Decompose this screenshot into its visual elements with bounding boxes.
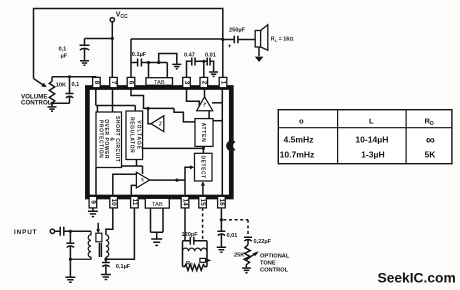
ground bbox=[101, 275, 111, 280]
svg-text:TAB: TAB bbox=[154, 80, 165, 86]
wire pin2 riser bbox=[203, 61, 205, 77]
svg-text:10.7mHz: 10.7mHz bbox=[280, 150, 315, 160]
wire TAB top bracket bbox=[149, 63, 168, 78]
wire secondary top to pin10 bbox=[106, 208, 113, 235]
wire secondary bottom to pin11 bbox=[106, 208, 134, 259]
node junction rail pin1 bbox=[221, 38, 224, 41]
capacitor 120pF tank bbox=[183, 237, 208, 245]
pin 7 bbox=[110, 77, 118, 87]
wire output rail y39 bbox=[131, 38, 234, 41]
node VCC terminal bbox=[110, 18, 114, 22]
IC U1 body outline bbox=[87, 88, 231, 198]
inductor L tank coil bbox=[183, 248, 207, 251]
svg-text:250µF: 250µF bbox=[229, 27, 246, 33]
node junction bbox=[147, 61, 150, 64]
svg-text:0,1: 0,1 bbox=[59, 47, 67, 53]
wire shunt to ground bbox=[69, 259, 71, 277]
svg-text:8: 8 bbox=[93, 81, 100, 85]
wire pin15 to DETECT bottom bbox=[202, 184, 204, 195]
ground input bbox=[65, 277, 75, 282]
wire wiper arrow diagonal bbox=[34, 79, 44, 86]
svg-text:TONE: TONE bbox=[260, 261, 276, 267]
wire pin15 dashed down bbox=[202, 208, 204, 241]
svg-text:Fs: Fs bbox=[158, 121, 162, 125]
wire pin16 down bbox=[220, 208, 222, 231]
wire op-amp base to ATTEN bbox=[208, 111, 210, 119]
ground bbox=[217, 247, 226, 252]
table header separator bbox=[278, 127, 452, 129]
pin 10 bbox=[110, 196, 118, 208]
wire bracket to ground bbox=[159, 54, 177, 64]
ground bbox=[172, 64, 181, 68]
svg-text:∞: ∞ bbox=[426, 133, 435, 147]
ground tone bbox=[242, 268, 251, 273]
wire top feedback rail from output to volume wiper bbox=[34, 9, 223, 79]
node junction bbox=[202, 147, 205, 150]
svg-text:0,22µF: 0,22µF bbox=[254, 239, 272, 245]
ground pin 9 bbox=[88, 208, 98, 217]
capacitor input shunt bbox=[66, 231, 74, 259]
wire regulator bottom jog to IF amp bbox=[122, 160, 143, 175]
pin 6 bbox=[127, 77, 135, 87]
svg-text:7: 7 bbox=[110, 81, 117, 85]
transformer T1 core bbox=[99, 243, 101, 257]
svg-text:ATTEN: ATTEN bbox=[200, 123, 206, 143]
svg-text:5K: 5K bbox=[425, 150, 437, 160]
wire pin14 down to quad tank bbox=[184, 208, 186, 241]
wire pot top to pin 8 bbox=[52, 77, 96, 78]
svg-text:SeekIC.com: SeekIC.com bbox=[378, 271, 456, 286]
svg-text:4.5mHz: 4.5mHz bbox=[283, 135, 313, 145]
wire IF output to detect bbox=[150, 167, 192, 194]
svg-text:PROTECTION: PROTECTION bbox=[98, 120, 104, 158]
wire pin7 into protection block bbox=[112, 88, 114, 112]
node arrowhead up bbox=[201, 181, 205, 185]
node junction VCC bypass bbox=[111, 37, 114, 40]
svg-text:0,01: 0,01 bbox=[227, 233, 238, 239]
svg-text:0.47: 0.47 bbox=[184, 53, 195, 59]
wire tab bottom lead bbox=[151, 208, 164, 239]
svg-text:16: 16 bbox=[218, 198, 225, 206]
svg-text:VOLTAGE: VOLTAGE bbox=[136, 120, 142, 150]
pin 3 bbox=[183, 77, 191, 87]
op-amp Fs (points left) bbox=[151, 116, 164, 132]
svg-text:0,1: 0,1 bbox=[72, 82, 80, 88]
node arrowhead into DETECT bbox=[190, 165, 194, 169]
svg-text:9: 9 bbox=[89, 200, 96, 204]
svg-text:Rd: Rd bbox=[186, 261, 193, 267]
svg-text:120pF: 120pF bbox=[182, 232, 199, 238]
wire pin10 to IF input bbox=[113, 174, 137, 195]
wire pin6 column bbox=[130, 39, 132, 78]
pin 8 bbox=[93, 77, 101, 87]
block SHORT CIRCUIT & OVER POWER PROTECTION bbox=[96, 112, 122, 168]
node junction bbox=[69, 258, 72, 261]
resistor Rd damping bbox=[183, 264, 208, 270]
wire pin8 to regulator rail bbox=[96, 88, 136, 111]
wire node staircase to ATTEN input bbox=[174, 108, 195, 122]
node junction pot bottom bbox=[50, 102, 53, 105]
node junction pot top cap bbox=[68, 75, 71, 78]
wire speaker ground stub bbox=[258, 47, 260, 56]
pin 2 bbox=[200, 77, 208, 87]
block VOLTAGE REGULATOR bbox=[126, 111, 143, 160]
pin 1 bbox=[219, 77, 227, 87]
capacitor 0.1uF secondary bbox=[102, 259, 110, 274]
table column separators bbox=[338, 110, 407, 164]
wire protection block to pin9 bbox=[95, 168, 97, 195]
node tuning arrow into slug bbox=[97, 223, 99, 230]
table tuning data border bbox=[278, 110, 452, 164]
node junction bbox=[175, 179, 178, 182]
capacitor 0.1uF pin6 decouple bbox=[131, 59, 149, 67]
IC right edge notch bbox=[226, 140, 237, 151]
svg-text:0,1µF: 0,1µF bbox=[116, 264, 131, 270]
op-amp output (points up) bbox=[197, 97, 213, 111]
ground bbox=[255, 57, 264, 62]
wire tank rails bbox=[183, 241, 208, 267]
transformer T1 secondary bbox=[106, 235, 109, 257]
speaker cone bbox=[261, 25, 268, 51]
svg-text:o: o bbox=[299, 117, 304, 126]
wire stub into protection block bbox=[96, 106, 98, 113]
node junction bbox=[220, 218, 223, 221]
capacitor 0.01 bbox=[204, 58, 214, 72]
svg-text:VCC: VCC bbox=[116, 11, 128, 20]
capacitor 250uF output bbox=[234, 36, 255, 44]
svg-text:0.01: 0.01 bbox=[205, 53, 216, 59]
svg-text:DETECT: DETECT bbox=[200, 155, 206, 178]
svg-text:3: 3 bbox=[183, 81, 190, 85]
svg-text:µF: µF bbox=[61, 54, 68, 60]
node junction bbox=[69, 230, 72, 233]
svg-text:0.1µF: 0.1µF bbox=[132, 52, 147, 58]
pin 9 bbox=[89, 196, 97, 208]
svg-text:10-14µH: 10-14µH bbox=[355, 135, 388, 145]
node wiper arrowhead bbox=[41, 83, 47, 88]
transformer T1 primary bbox=[70, 231, 91, 259]
wire atten right tap bbox=[213, 120, 222, 122]
svg-text:+: + bbox=[228, 43, 232, 50]
pin 14 bbox=[181, 196, 189, 208]
svg-text:INPUT: INPUT bbox=[14, 229, 37, 236]
pin 16 bbox=[218, 196, 226, 208]
block DETECT bbox=[195, 153, 213, 181]
svg-text:15: 15 bbox=[199, 198, 206, 206]
svg-text:L: L bbox=[369, 117, 374, 126]
node junction bbox=[104, 258, 107, 261]
wire pin6 staircase to Fs node bbox=[131, 88, 174, 108]
capacitor 0.1 across pot bbox=[66, 77, 74, 104]
ground tab bottom bbox=[151, 239, 162, 245]
wire pin3 staircase to output driver bbox=[187, 88, 200, 111]
svg-text:11: 11 bbox=[131, 199, 138, 206]
ground bbox=[48, 107, 57, 111]
IC tab bottom bbox=[145, 198, 169, 208]
pin 15 bbox=[199, 196, 207, 208]
wire node to Fs apex bbox=[148, 108, 151, 123]
svg-text:1: 1 bbox=[220, 81, 227, 85]
speaker RL driver bbox=[255, 31, 260, 48]
svg-text:A₅: A₅ bbox=[203, 102, 207, 107]
wire pot bottom bbox=[52, 102, 70, 104]
block ATTEN bbox=[195, 119, 213, 147]
wire to bypass cap bbox=[85, 39, 113, 45]
op-amp IF (points right) bbox=[136, 172, 149, 188]
wire pin1 column bbox=[222, 40, 224, 78]
node junction pin2 bbox=[202, 60, 205, 63]
potentiometer 25K tone bbox=[244, 245, 250, 268]
capacitor 0.01 deemphasis bbox=[217, 231, 225, 247]
svg-text:6: 6 bbox=[128, 81, 135, 85]
svg-text:1-3µH: 1-3µH bbox=[361, 150, 385, 160]
wire dashed to optional tone control bbox=[223, 220, 248, 237]
svg-text:10K: 10K bbox=[56, 83, 66, 89]
ground bbox=[209, 72, 218, 76]
svg-text:10: 10 bbox=[110, 198, 117, 206]
wire VCC feed down to pin 7 bbox=[111, 22, 113, 78]
node junction bbox=[157, 61, 160, 64]
IC tab top bbox=[146, 78, 173, 86]
svg-text:RL = 16Ω: RL = 16Ω bbox=[271, 37, 294, 43]
svg-text:TAB: TAB bbox=[152, 202, 163, 208]
wire pin1 internal feedback column bbox=[221, 88, 223, 195]
svg-text:CONTROL: CONTROL bbox=[260, 268, 289, 274]
wire feedback tap to op-amp bbox=[212, 102, 222, 104]
svg-text:2: 2 bbox=[200, 81, 207, 85]
svg-text:CONTROL: CONTROL bbox=[21, 99, 52, 106]
svg-text:25K: 25K bbox=[234, 252, 244, 258]
svg-text:OPTIONAL: OPTIONAL bbox=[260, 253, 290, 259]
wire pin11 to IF input bbox=[131, 185, 136, 194]
node junction Fs output bbox=[146, 107, 149, 110]
ground bbox=[80, 61, 89, 65]
wire ATTEN to DETECT with tap from regulator bbox=[143, 146, 204, 153]
svg-text:14: 14 bbox=[182, 198, 189, 206]
capacitor C1 0.1uF VCC bypass bbox=[80, 45, 90, 60]
node tone wiper arrow bbox=[246, 254, 254, 260]
capacitor input coupling bbox=[55, 227, 91, 236]
svg-text:REGULATOR: REGULATOR bbox=[129, 117, 135, 153]
pin 11 bbox=[131, 196, 139, 208]
node tuning slug hook on coil bbox=[200, 258, 206, 262]
transformer tuning slug box bbox=[96, 233, 102, 242]
capacitor 0.47 bbox=[192, 58, 204, 66]
wire pin3 riser bbox=[187, 61, 192, 77]
capacitor 0.22uF tone bbox=[244, 237, 252, 245]
wire apex to pin2 bbox=[204, 88, 206, 97]
potentiometer 10K volume control bbox=[49, 77, 54, 105]
node input terminal bbox=[50, 229, 54, 233]
